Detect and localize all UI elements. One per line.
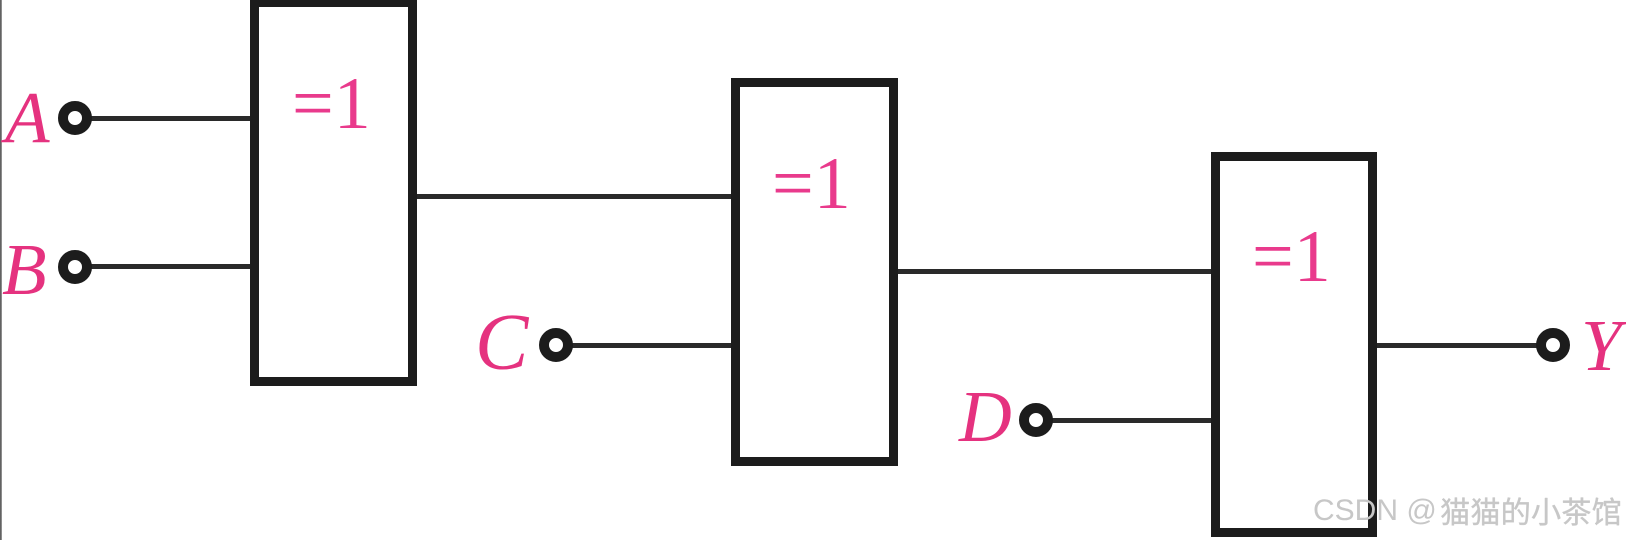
terminal B bbox=[58, 250, 92, 284]
label =1 of U1 bbox=[292, 67, 371, 141]
wire A: input A to XOR gate U1 bbox=[88, 116, 254, 121]
node label C bbox=[475, 303, 528, 383]
node label A bbox=[5, 81, 50, 154]
XOR gate U3 bbox=[1211, 152, 1377, 537]
wire: U2 output to U3 input bbox=[896, 269, 1215, 274]
wire C: input C to XOR gate U2 bbox=[569, 343, 735, 348]
watermark CSDN bbox=[1313, 496, 1437, 526]
terminal D bbox=[1019, 403, 1053, 437]
node label B bbox=[2, 233, 47, 306]
terminal C bbox=[539, 328, 573, 362]
label =1 of U3 bbox=[1252, 220, 1331, 294]
terminal A bbox=[58, 101, 92, 135]
XOR gate U1 bbox=[250, 0, 417, 386]
wire: U1 output to U2 input bbox=[415, 194, 735, 199]
wire B: input B to XOR gate U1 bbox=[88, 264, 254, 269]
label =1 of U2 bbox=[772, 147, 851, 221]
left edge border line bbox=[0, 0, 2, 540]
watermark CJK 猫猫的小茶馆 bbox=[1440, 491, 1626, 535]
terminal Y bbox=[1536, 328, 1570, 362]
wire: U3 output to Y terminal bbox=[1375, 343, 1539, 348]
wire D: input D to XOR gate U3 bbox=[1050, 418, 1215, 423]
XOR gate U2 bbox=[731, 78, 898, 466]
node label Y bbox=[1581, 309, 1622, 382]
node label D bbox=[959, 380, 1012, 453]
